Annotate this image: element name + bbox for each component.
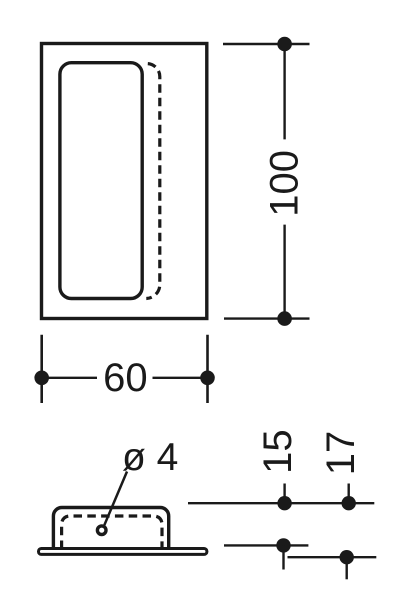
dim 17: lower dot	[340, 550, 354, 564]
dim 15: tick below lower dot	[282, 545, 284, 569]
hole circle	[97, 526, 106, 535]
dimension 100: vertical line upper segment	[283, 44, 285, 139]
front view recess rounded rectangle	[60, 63, 142, 299]
dim 17: tick below lower dot	[346, 557, 348, 579]
leader line to hole	[104, 472, 127, 526]
front view outer rectangle	[42, 44, 207, 319]
side view dome body	[53, 508, 168, 550]
dim 17: tick above upper dot	[348, 484, 350, 504]
dimension 100: bottom tick	[224, 317, 310, 319]
side view hidden insert dashed outline	[62, 516, 162, 549]
svg-text:15: 15	[256, 429, 300, 474]
svg-text:ø 4: ø 4	[122, 436, 178, 479]
svg-text:60: 60	[103, 356, 148, 400]
dimension 60: left dim line segment	[42, 377, 97, 379]
dimension 60: right extension line	[206, 335, 209, 403]
dimension 60: right dot	[200, 371, 215, 386]
dimension 100: top tick	[223, 43, 310, 45]
svg-text:100: 100	[263, 150, 307, 217]
dimensions 15/17: lower dim line (plate bottom plane)	[288, 556, 377, 558]
dim 15: lower dot	[276, 538, 290, 552]
dimension 100: bottom dot	[277, 311, 292, 326]
dim 15: upper dot	[277, 496, 291, 510]
dimensions 15/17: upper dim line (dome top plane)	[188, 502, 374, 504]
dimension 60: left extension line	[40, 335, 43, 403]
dim 15: tick above upper dot	[283, 484, 285, 504]
svg-text:17: 17	[319, 431, 363, 476]
dimension 60: right dim line segment	[153, 377, 208, 379]
dimension 100: vertical line lower segment	[283, 225, 285, 319]
hidden body dashed edge (front view)	[146, 64, 160, 299]
dim 17: upper dot	[342, 496, 356, 510]
dimension 100: top dot	[277, 37, 292, 52]
dimension 60: left dot	[34, 371, 49, 386]
side view base plate	[39, 549, 207, 555]
dimensions 15/17: lower dim line (plate top plane)	[224, 544, 308, 546]
